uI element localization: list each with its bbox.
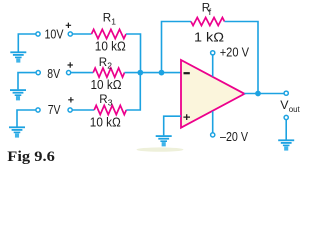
svg-text:–20 V: –20 V bbox=[220, 129, 248, 144]
op-amp inverting input marker - bbox=[184, 72, 190, 74]
terminal: +20 V supply bbox=[211, 51, 215, 55]
ground (below 10V source) bbox=[10, 51, 26, 62]
terminal: 10V positive bbox=[68, 32, 72, 36]
terminal: 7V positive bbox=[68, 108, 72, 112]
wire: Vout return to ground bbox=[285, 120, 287, 140]
svg-text:f: f bbox=[209, 7, 212, 17]
wire: 7V terminal to R3 bbox=[72, 109, 94, 111]
resistor Rf bbox=[191, 18, 225, 26]
wire: non-inverting input to ground bbox=[164, 116, 181, 135]
ground (below 7V source) bbox=[9, 126, 25, 137]
svg-text:7V: 7V bbox=[48, 102, 61, 117]
ground (below 8V source) bbox=[10, 89, 26, 100]
resistor R1 bbox=[92, 29, 127, 38]
wire: -V supply stem bbox=[212, 111, 214, 133]
polarity + of 7V source bbox=[68, 97, 73, 102]
op-amp non-inverting input marker + bbox=[183, 114, 190, 120]
svg-text:2: 2 bbox=[107, 61, 112, 71]
terminal: Vout bbox=[284, 91, 288, 95]
terminal: 7V negative bbox=[36, 108, 40, 112]
wire: +V supply stem bbox=[212, 55, 214, 77]
junction node: output/feedback bbox=[255, 91, 261, 97]
ground (non-inverting input) bbox=[156, 135, 172, 146]
terminal: 8V negative bbox=[36, 71, 40, 75]
shadow artifact under ground bbox=[137, 147, 184, 151]
svg-text:Fig 9.6: Fig 9.6 bbox=[7, 149, 55, 165]
wire: summing node line to op-amp inverting input bbox=[125, 72, 182, 74]
terminal: 8V positive bbox=[67, 71, 71, 75]
svg-text:R: R bbox=[103, 12, 111, 25]
wire: 10V row, ground stem to left terminal bbox=[18, 34, 36, 52]
svg-text:+20 V: +20 V bbox=[220, 45, 250, 60]
wire: 8V row, ground stem to left terminal bbox=[18, 73, 36, 90]
svg-text:8V: 8V bbox=[47, 66, 60, 81]
svg-text:10 kΩ: 10 kΩ bbox=[90, 115, 121, 130]
resistor R3 bbox=[94, 105, 126, 114]
wire: 8V terminal to R2 bbox=[71, 72, 93, 74]
wire: 7V row, ground stem to left terminal bbox=[17, 110, 36, 127]
wire: Rf to output node (right riser) bbox=[225, 22, 259, 94]
svg-text:10V: 10V bbox=[45, 26, 64, 41]
resistor R2 bbox=[93, 68, 124, 77]
junction node: feedback tap at inverting input bbox=[159, 70, 165, 76]
svg-text:R: R bbox=[99, 56, 107, 69]
wire: 10V terminal to R1 bbox=[73, 33, 92, 35]
polarity + of 10V source bbox=[66, 23, 71, 28]
junction node: R1/R2/R3 summing point bbox=[137, 70, 143, 76]
svg-text:3: 3 bbox=[108, 97, 113, 107]
ground (output reference) bbox=[278, 139, 294, 150]
terminal: 10V negative bbox=[36, 32, 40, 36]
polarity + of 8V source bbox=[68, 62, 73, 67]
wire: feedback left riser bbox=[162, 22, 192, 73]
svg-text:1: 1 bbox=[111, 17, 116, 27]
wire: R3 up to summing node bbox=[126, 73, 140, 110]
svg-text:out: out bbox=[289, 105, 301, 114]
svg-text:10 kΩ: 10 kΩ bbox=[91, 77, 122, 92]
svg-text:1 kΩ: 1 kΩ bbox=[194, 29, 224, 44]
terminal: Vout return (lower) bbox=[284, 115, 288, 119]
svg-text:R: R bbox=[99, 93, 107, 106]
terminal: -20 V supply bbox=[211, 133, 215, 137]
op-amp U1 triangle bbox=[181, 60, 245, 128]
wire: op-amp output to Vout terminal bbox=[244, 93, 284, 95]
svg-text:10 kΩ: 10 kΩ bbox=[95, 39, 126, 54]
wire: R1 to summing node bbox=[126, 34, 141, 73]
